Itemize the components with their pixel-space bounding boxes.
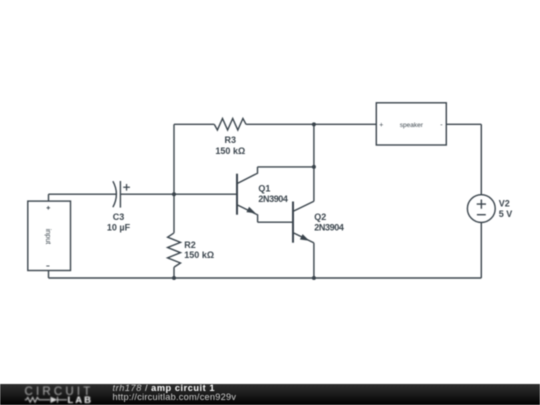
voltage source V2 circle — [467, 195, 495, 223]
node Q1 collector dot — [312, 165, 316, 169]
transistor Q1 base bar — [236, 174, 238, 215]
svg-text:2N3904: 2N3904 — [258, 194, 288, 204]
wire collector rail upper — [313, 124, 315, 201]
node base junction dot — [172, 192, 176, 196]
resistor R3 — [214, 119, 246, 131]
node R2 bottom dot — [172, 276, 176, 280]
transistor Q2 emitter lead — [293, 233, 314, 243]
wire right rail lower — [480, 223, 482, 279]
wire R2 bottom lead — [173, 267, 175, 278]
svg-text:150 kΩ: 150 kΩ — [184, 250, 214, 260]
input box minus terminal mark — [46, 265, 49, 267]
node collector rail top dot — [312, 122, 316, 126]
node emitter bottom dot — [312, 276, 316, 280]
capacitor C3 straight plate — [119, 181, 121, 208]
svg-text:Q2: Q2 — [314, 212, 326, 222]
wire Q1 emitter to Q2 base — [258, 221, 293, 223]
speaker box — [376, 103, 446, 145]
wire Q1 collector to rail — [258, 166, 314, 168]
wire Q2 emitter down — [313, 243, 315, 278]
capacitor C3 curved plate — [113, 181, 117, 207]
svg-text:5 V: 5 V — [499, 209, 513, 219]
wire input top stub — [48, 194, 50, 201]
transistor Q1 collector lead — [237, 167, 258, 184]
transistor Q1 emitter lead — [237, 205, 258, 223]
wire capacitor to Q1 base — [120, 193, 236, 195]
svg-text:2N3904: 2N3904 — [314, 222, 344, 232]
wire input to capacitor C3 — [49, 193, 117, 195]
footer watermark bar — [0, 384, 540, 405]
voltage source V2 plus — [477, 200, 486, 209]
footer title line — [113, 384, 216, 393]
voltage source V2 minus — [477, 214, 486, 216]
CircuitLab logo — [24, 384, 99, 405]
svg-text:Q1: Q1 — [258, 184, 270, 194]
logo resistor squiggle and diode — [25, 397, 67, 403]
wire speaker to right rail — [446, 123, 481, 125]
svg-text:+: + — [379, 122, 383, 129]
wire R3 to speaker — [246, 123, 376, 125]
svg-text:150 kΩ: 150 kΩ — [215, 146, 245, 156]
wire to R3 left — [174, 123, 214, 125]
svg-text:R2: R2 — [184, 240, 196, 250]
svg-text:R3: R3 — [225, 135, 237, 145]
input box plus terminal mark — [47, 206, 51, 210]
resistor R2 top lead wire — [173, 194, 175, 233]
transistor Q2 emitter arrow — [300, 234, 309, 241]
wire bottom rail — [49, 277, 482, 279]
svg-text:speaker: speaker — [400, 122, 424, 129]
capacitor C3 polarity plus — [123, 184, 130, 191]
transistor Q1 emitter arrow — [246, 207, 255, 214]
wire vertical feedback left — [173, 124, 175, 194]
svg-text:C3: C3 — [113, 212, 125, 222]
input source box X1 — [28, 201, 71, 270]
resistor R2 — [168, 233, 181, 267]
wire input bottom stub — [48, 271, 50, 279]
wire right rail upper — [480, 124, 482, 194]
footer url line — [113, 393, 237, 402]
svg-text:V2: V2 — [499, 198, 510, 208]
svg-text:LAB: LAB — [68, 395, 94, 405]
transistor Q2 base bar — [292, 202, 294, 243]
svg-text:input: input — [44, 229, 53, 245]
svg-text:10 µF: 10 µF — [107, 223, 131, 233]
transistor Q2 collector lead — [293, 201, 314, 211]
